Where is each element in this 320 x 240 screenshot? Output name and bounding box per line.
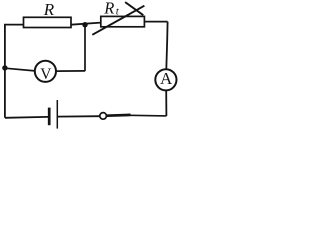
node junction dot bbox=[82, 22, 87, 27]
svg-text:A: A bbox=[160, 69, 173, 88]
wire right vertical lower bbox=[165, 90, 167, 116]
switch lever (thick bar) bbox=[107, 114, 131, 117]
rheostat Rt box bbox=[101, 16, 145, 26]
ammeter A bbox=[155, 69, 176, 90]
wire bottom left segment bbox=[5, 116, 48, 119]
wire voltmeter left lead bbox=[5, 68, 35, 71]
wire top left segment bbox=[4, 24, 24, 26]
switch pivot circle bbox=[100, 113, 107, 120]
voltmeter V bbox=[35, 61, 56, 82]
rheostat Rt arrow barb bbox=[125, 2, 143, 15]
svg-text:R: R bbox=[43, 0, 55, 19]
node left junction dot bbox=[2, 65, 7, 70]
battery short plate bbox=[48, 108, 51, 126]
svg-text:R: R bbox=[103, 0, 114, 18]
wire voltmeter right lead bbox=[56, 70, 85, 72]
svg-text:V: V bbox=[40, 66, 52, 83]
wire top right segment bbox=[144, 21, 167, 23]
resistor R bbox=[24, 17, 72, 27]
wire bottom right segment bbox=[130, 114, 166, 117]
wire top middle segment bbox=[71, 23, 101, 25]
wire voltmeter branch vertical bbox=[84, 25, 86, 71]
wire left vertical bbox=[4, 25, 6, 118]
wire right vertical upper bbox=[166, 22, 167, 70]
battery long plate bbox=[56, 100, 58, 129]
rheostat Rt arrow shaft bbox=[92, 6, 144, 35]
wire bottom middle segment bbox=[57, 115, 99, 117]
